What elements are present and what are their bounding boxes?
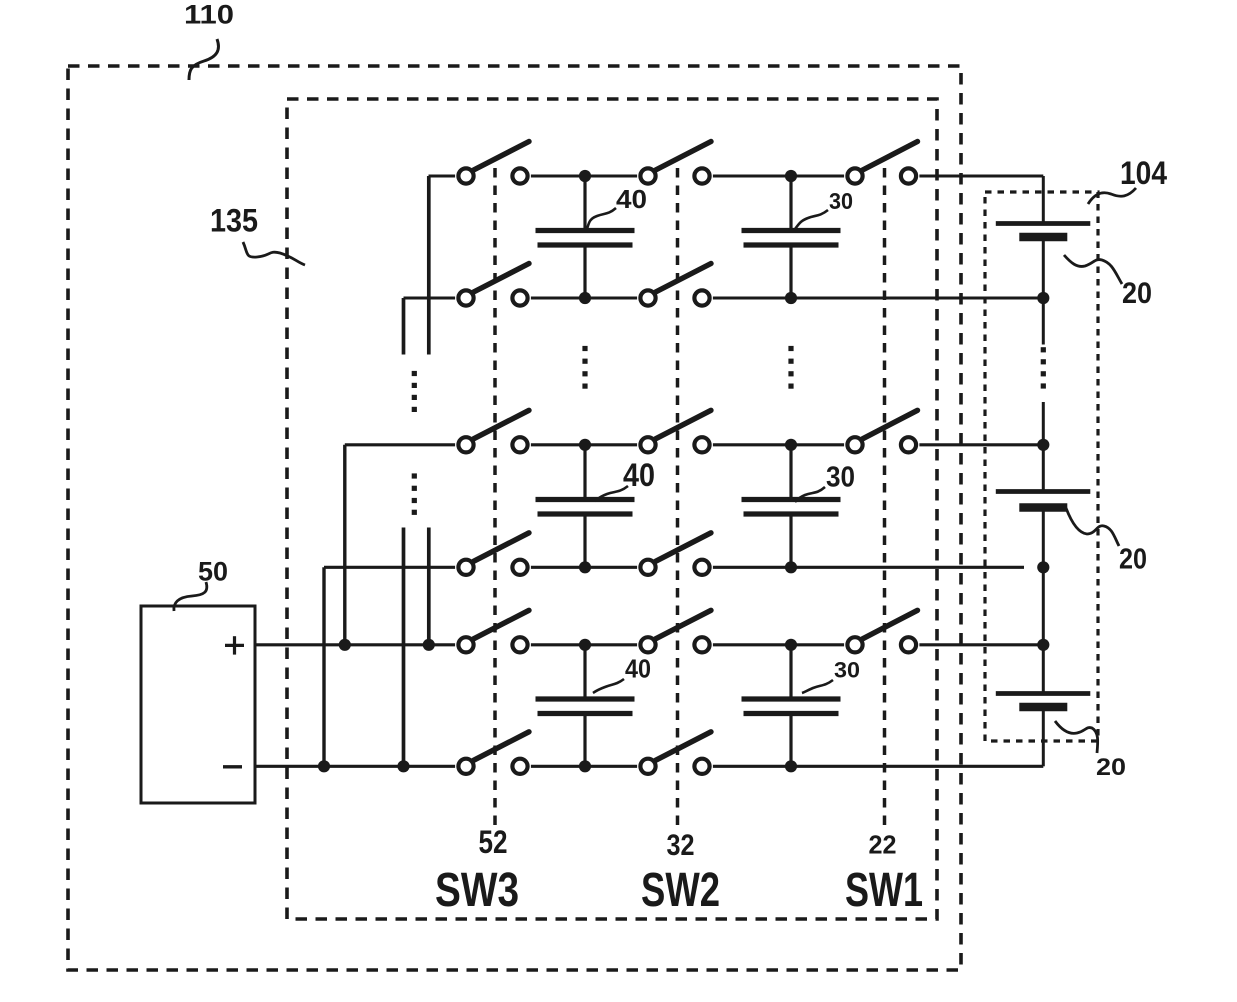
svg-text:SW2: SW2 [641, 864, 720, 917]
svg-text:50: 50 [198, 557, 228, 587]
svg-text:22: 22 [869, 830, 897, 860]
svg-text:30: 30 [829, 188, 853, 214]
svg-text:SW1: SW1 [845, 864, 923, 917]
svg-text:110: 110 [184, 0, 234, 30]
svg-text:40: 40 [616, 184, 647, 214]
svg-text:104: 104 [1120, 155, 1167, 191]
svg-text:20: 20 [1122, 277, 1152, 310]
svg-text:32: 32 [667, 829, 695, 862]
svg-text:30: 30 [826, 461, 855, 493]
svg-text:135: 135 [210, 203, 258, 239]
svg-text:52: 52 [479, 824, 508, 860]
svg-text:SW3: SW3 [435, 864, 519, 917]
svg-text:20: 20 [1119, 544, 1147, 576]
svg-text:40: 40 [623, 457, 655, 493]
svg-text:20: 20 [1096, 754, 1126, 781]
svg-text:30: 30 [834, 657, 860, 682]
svg-text:40: 40 [625, 653, 651, 683]
